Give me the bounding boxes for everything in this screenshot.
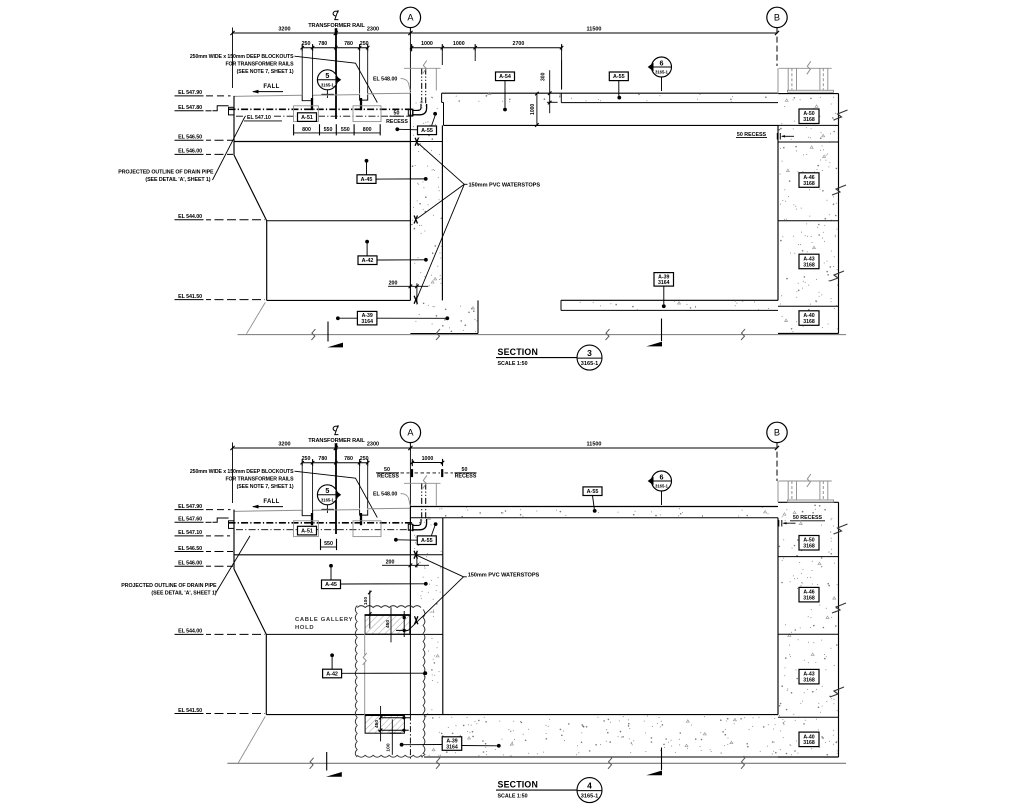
svg-text:SCALE 1:50: SCALE 1:50 — [498, 794, 528, 800]
svg-text:EL 546.50: EL 546.50 — [178, 546, 202, 552]
svg-text:3165-1: 3165-1 — [321, 82, 334, 87]
svg-text:(SEE NOTE 7, SHEET 1): (SEE NOTE 7, SHEET 1) — [237, 484, 294, 490]
svg-text:50 RECESS: 50 RECESS — [793, 515, 823, 521]
svg-text:2300: 2300 — [367, 441, 379, 447]
svg-text:100: 100 — [363, 597, 369, 605]
svg-text:1000: 1000 — [421, 41, 433, 47]
svg-text:(SEE NOTE 7, SHEET 1): (SEE NOTE 7, SHEET 1) — [237, 69, 294, 75]
svg-text:3165-1: 3165-1 — [655, 484, 668, 489]
svg-text:EL 547.90: EL 547.90 — [178, 90, 202, 96]
svg-text:3164: 3164 — [658, 280, 670, 286]
svg-text:TRANSFORMER RAIL: TRANSFORMER RAIL — [308, 438, 365, 444]
svg-text:11500: 11500 — [587, 26, 602, 32]
svg-text:50 RECESS: 50 RECESS — [737, 132, 767, 138]
svg-text:EL 546.50: EL 546.50 — [178, 135, 202, 141]
svg-text:250mm WIDE x 150mm DEEP BLOCKO: 250mm WIDE x 150mm DEEP BLOCKOUTS — [190, 54, 294, 60]
svg-text:FALL: FALL — [263, 499, 279, 505]
svg-text:450: 450 — [385, 620, 391, 628]
svg-text:1000: 1000 — [453, 41, 465, 47]
svg-text:EL 547.90: EL 547.90 — [178, 504, 202, 510]
svg-text:250: 250 — [302, 456, 311, 462]
svg-text:3200: 3200 — [278, 441, 290, 447]
svg-text:1000: 1000 — [530, 104, 536, 115]
svg-text:EL 546.00: EL 546.00 — [178, 149, 202, 155]
svg-text:EL 547.60: EL 547.60 — [178, 517, 202, 523]
svg-text:A-45: A-45 — [325, 582, 337, 588]
svg-text:3168: 3168 — [803, 319, 815, 325]
svg-text:11500: 11500 — [587, 441, 602, 447]
svg-text:EL 544.00: EL 544.00 — [178, 214, 202, 220]
svg-text:FOR TRANSFORMER RAILS: FOR TRANSFORMER RAILS — [225, 476, 294, 482]
svg-text:A-54: A-54 — [499, 74, 511, 80]
svg-text:3165-1: 3165-1 — [581, 361, 598, 367]
svg-text:EL 546.00: EL 546.00 — [178, 561, 202, 567]
svg-text:6: 6 — [660, 58, 664, 67]
svg-text:150mm PVC WATERSTOPS: 150mm PVC WATERSTOPS — [468, 573, 540, 579]
svg-text:EL 548.00: EL 548.00 — [373, 76, 397, 82]
svg-text:5: 5 — [325, 486, 329, 495]
svg-text:550: 550 — [324, 127, 333, 133]
svg-text:SECTION: SECTION — [498, 347, 539, 357]
svg-text:780: 780 — [344, 41, 353, 47]
svg-text:RECESS: RECESS — [386, 119, 408, 125]
svg-text:550: 550 — [341, 127, 350, 133]
svg-text:CABLE GALLERY: CABLE GALLERY — [295, 617, 353, 623]
svg-text:50: 50 — [384, 467, 390, 473]
svg-text:250: 250 — [360, 41, 369, 47]
svg-text:3168: 3168 — [803, 544, 815, 550]
svg-text:450: 450 — [374, 720, 380, 728]
svg-text:RECESS: RECESS — [377, 474, 399, 480]
svg-text:A-42: A-42 — [362, 258, 374, 264]
svg-text:PROJECTED OUTLINE OF DRAIN PIP: PROJECTED OUTLINE OF DRAIN PIPE — [118, 170, 214, 176]
svg-text:250mm WIDE x 150mm DEEP BLOCKO: 250mm WIDE x 150mm DEEP BLOCKOUTS — [190, 469, 294, 475]
svg-text:EL 548.00: EL 548.00 — [373, 491, 397, 497]
svg-text:SECTION: SECTION — [498, 780, 539, 790]
svg-text:50: 50 — [394, 111, 400, 117]
svg-text:3164: 3164 — [446, 744, 458, 750]
svg-text:B: B — [774, 13, 780, 23]
svg-text:800: 800 — [363, 127, 372, 133]
svg-text:200: 200 — [386, 560, 395, 566]
svg-text:3168: 3168 — [803, 677, 815, 683]
svg-text:2700: 2700 — [513, 41, 525, 47]
svg-text:3168: 3168 — [803, 181, 815, 187]
svg-text:250: 250 — [360, 456, 369, 462]
svg-text:3168: 3168 — [803, 740, 815, 746]
svg-text:800: 800 — [302, 127, 311, 133]
svg-text:A-55: A-55 — [421, 538, 433, 544]
svg-text:RECESS: RECESS — [455, 474, 477, 480]
svg-text:A-42: A-42 — [326, 671, 338, 677]
svg-text:3168: 3168 — [803, 595, 815, 601]
svg-text:A-55: A-55 — [587, 489, 599, 495]
svg-text:FALL: FALL — [263, 84, 279, 90]
svg-text:780: 780 — [344, 456, 353, 462]
svg-text:EL 547.10: EL 547.10 — [178, 530, 202, 536]
svg-text:SCALE 1:50: SCALE 1:50 — [498, 361, 528, 367]
svg-text:EL 547.80: EL 547.80 — [178, 105, 202, 111]
svg-text:EL 547.10: EL 547.10 — [247, 115, 271, 121]
svg-text:A: A — [407, 13, 414, 23]
svg-text:FOR TRANSFORMER RAILS: FOR TRANSFORMER RAILS — [225, 61, 294, 67]
svg-text:200: 200 — [389, 280, 398, 286]
svg-text:6: 6 — [660, 472, 664, 481]
svg-text:4: 4 — [587, 780, 592, 790]
svg-text:550: 550 — [324, 541, 333, 547]
svg-text:3200: 3200 — [278, 26, 290, 32]
svg-text:A: A — [407, 428, 414, 438]
svg-text:(SEE DETAIL 'A', SHEET 1): (SEE DETAIL 'A', SHEET 1) — [145, 177, 210, 183]
svg-text:A-51: A-51 — [301, 529, 313, 535]
svg-text:HOLD: HOLD — [295, 625, 314, 631]
svg-text:A-51: A-51 — [301, 115, 313, 121]
svg-text:1000: 1000 — [422, 456, 434, 462]
svg-text:780: 780 — [318, 41, 327, 47]
svg-text:3165-1: 3165-1 — [655, 70, 668, 75]
svg-text:100: 100 — [386, 743, 392, 751]
svg-text:B: B — [774, 428, 780, 438]
svg-text:A-55: A-55 — [421, 128, 433, 134]
svg-text:2300: 2300 — [367, 26, 379, 32]
svg-text:3168: 3168 — [803, 117, 815, 123]
svg-text:EL 544.00: EL 544.00 — [178, 629, 202, 635]
svg-text:3168: 3168 — [803, 262, 815, 268]
svg-text:5: 5 — [325, 71, 329, 80]
svg-text:EL 541.50: EL 541.50 — [178, 708, 202, 714]
svg-text:EL 541.50: EL 541.50 — [178, 294, 202, 300]
svg-text:3165-1: 3165-1 — [321, 497, 334, 502]
svg-text:780: 780 — [318, 456, 327, 462]
svg-text:150mm PVC WATERSTOPS: 150mm PVC WATERSTOPS — [469, 182, 541, 188]
svg-text:A-45: A-45 — [361, 177, 373, 183]
svg-text:250: 250 — [302, 41, 311, 47]
svg-text:A-55: A-55 — [613, 74, 625, 80]
svg-text:3165-1: 3165-1 — [581, 794, 598, 800]
svg-text:TRANSFORMER RAIL: TRANSFORMER RAIL — [308, 23, 365, 29]
svg-text:300: 300 — [540, 72, 546, 81]
svg-text:3164: 3164 — [361, 319, 373, 325]
svg-text:3: 3 — [587, 348, 592, 358]
svg-text:(SEE DETAIL 'A', SHEET 1): (SEE DETAIL 'A', SHEET 1) — [151, 591, 216, 597]
svg-text:50: 50 — [462, 467, 468, 473]
svg-text:PROJECTED OUTLINE OF DRAIN PIP: PROJECTED OUTLINE OF DRAIN PIPE — [121, 583, 217, 589]
